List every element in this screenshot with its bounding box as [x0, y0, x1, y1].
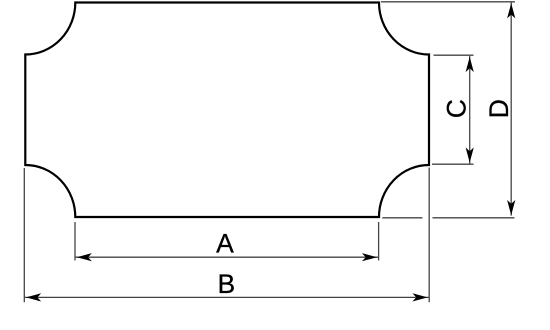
svg-text:B: B	[218, 269, 236, 299]
extension line A right	[378, 222, 380, 261]
svg-text:A: A	[216, 228, 234, 258]
extension line C top	[434, 54, 474, 56]
arrowhead C bottom	[466, 147, 474, 162]
extension line B right	[428, 168, 430, 303]
arrowhead B left	[26, 293, 41, 301]
arrowhead B right	[412, 293, 427, 301]
dimension line D	[510, 3, 512, 216]
dimension line A	[75, 256, 378, 258]
arrowhead C top	[466, 57, 474, 72]
svg-text:C: C	[442, 99, 472, 118]
extension line D bottom left segment	[382, 217, 422, 219]
dimension line B	[24, 296, 429, 298]
arrowhead A left	[77, 253, 92, 261]
arrowhead D bottom	[507, 200, 515, 215]
plate outline with concave corner radii	[25, 3, 429, 218]
svg-text:D: D	[484, 99, 514, 118]
extension line C bottom	[432, 163, 474, 165]
extension line A left	[74, 222, 76, 261]
arrowhead A right	[362, 253, 377, 261]
extension line D top	[381, 1, 515, 3]
dimension line C	[469, 56, 471, 164]
extension line B left	[23, 168, 25, 302]
arrowhead D top	[507, 3, 515, 18]
extension line D bottom right segment	[433, 217, 515, 219]
